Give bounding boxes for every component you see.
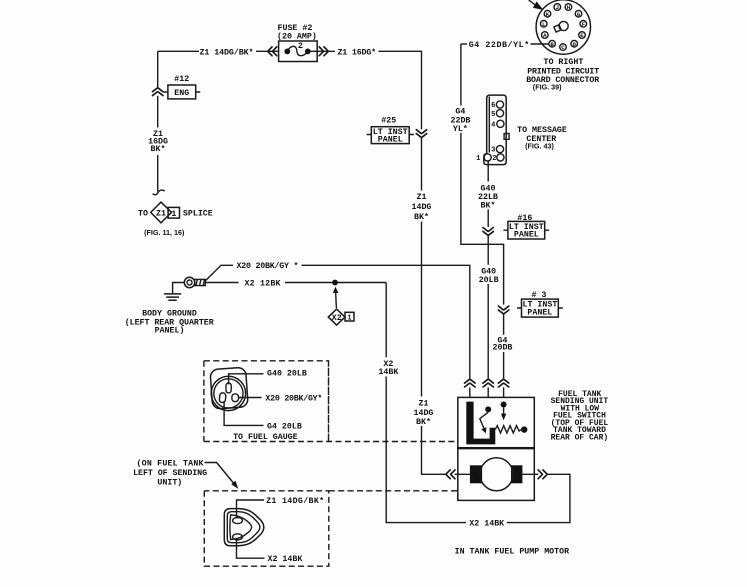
svg-text:1: 1 bbox=[347, 315, 351, 323]
message center pin 4 bbox=[497, 120, 504, 127]
PCB connector pin L bbox=[540, 21, 547, 28]
resistor end node bbox=[521, 426, 527, 432]
wire to label X2 14BK bbox=[237, 539, 265, 558]
svg-text:20LB: 20LB bbox=[479, 276, 499, 285]
svg-text:A: A bbox=[543, 32, 547, 39]
svg-text:(20 AMP): (20 AMP) bbox=[277, 31, 317, 41]
message center pin 2 bbox=[497, 154, 504, 161]
svg-text:PANEL: PANEL bbox=[378, 136, 403, 145]
wire Z1 lower segment with end hook bbox=[157, 155, 159, 192]
message center pin 1 bbox=[484, 154, 491, 161]
svg-text:14DG: 14DG bbox=[414, 409, 434, 418]
wire X20 from ground diagonal bbox=[205, 265, 233, 281]
PCB connector pin J bbox=[554, 4, 561, 11]
svg-text:5: 5 bbox=[491, 111, 495, 119]
svg-text:E: E bbox=[580, 32, 584, 39]
motor brush left bbox=[470, 465, 482, 483]
PCB connector pin G bbox=[575, 10, 582, 17]
wire to label X20 20BK/GY* bbox=[239, 397, 262, 399]
svg-text:G4 20LB: G4 20LB bbox=[267, 422, 302, 431]
wire Z1 to corner and down bbox=[379, 51, 422, 129]
svg-text:IN TANK FUEL PUMP MOTOR: IN TANK FUEL PUMP MOTOR bbox=[455, 548, 570, 557]
message center pin 6 bbox=[496, 101, 503, 108]
sender resistor bbox=[495, 426, 521, 433]
svg-text:H: H bbox=[567, 4, 571, 11]
sending unit ground bracket bbox=[466, 402, 495, 445]
svg-text:Z1: Z1 bbox=[417, 193, 427, 202]
connector #12 ENG box bbox=[168, 85, 196, 99]
svg-text:(FIG. 39): (FIG. 39) bbox=[533, 83, 562, 92]
svg-text:BODY GROUND: BODY GROUND bbox=[142, 309, 197, 318]
splice X2>1 symbol bbox=[328, 309, 345, 325]
dashed box pump connector area bbox=[204, 491, 328, 566]
svg-text:SPLICE: SPLICE bbox=[183, 209, 213, 218]
svg-text:L: L bbox=[542, 21, 546, 28]
fuel gauge pin G40 slot bbox=[226, 383, 231, 393]
connector #25 box bbox=[371, 127, 409, 144]
connector #25 stubs bbox=[367, 134, 414, 136]
svg-text:X2 14BK: X2 14BK bbox=[268, 555, 303, 564]
svg-text:B: B bbox=[550, 41, 554, 48]
svg-text:TO RIGHT: TO RIGHT bbox=[544, 58, 584, 67]
svg-text:X2 14BK: X2 14BK bbox=[469, 520, 504, 529]
svg-text:REAR OF CAR): REAR OF CAR) bbox=[551, 433, 609, 442]
svg-text:#12: #12 bbox=[174, 75, 189, 84]
wire G4 continues down, turns right, down at 503.6 bbox=[461, 133, 504, 305]
wire to label G4 20LB bbox=[224, 401, 263, 425]
fuel gauge pin G4 slot bbox=[219, 393, 226, 403]
svg-text:G40 20LB: G40 20LB bbox=[267, 369, 307, 378]
fuse F2 box bbox=[279, 41, 318, 62]
svg-text:TO: TO bbox=[138, 209, 148, 218]
svg-text:Z1 16DG*: Z1 16DG* bbox=[338, 47, 377, 57]
svg-text:14BK: 14BK bbox=[378, 368, 398, 377]
svg-text:ENG: ENG bbox=[174, 89, 189, 98]
junction node X2 bbox=[332, 280, 338, 286]
PCB connector pin F bbox=[580, 21, 587, 28]
PCB connector center key bbox=[559, 21, 568, 30]
PCB connector pin H bbox=[565, 4, 572, 11]
svg-text:1: 1 bbox=[476, 155, 480, 163]
svg-text:2: 2 bbox=[492, 155, 496, 163]
svg-text:BK*: BK* bbox=[481, 200, 496, 210]
svg-text:X2: X2 bbox=[332, 314, 342, 323]
svg-text:G4 22DB/YL*: G4 22DB/YL* bbox=[469, 40, 530, 50]
wire X2 14BK down bbox=[385, 283, 387, 358]
wire Z1 horizontal top-left to fuse bbox=[158, 50, 199, 52]
arrow pointing to PCB connector bbox=[529, 0, 535, 5]
wire G4 vertical bbox=[460, 44, 462, 106]
PCB connector pin A bbox=[542, 32, 549, 39]
fuel gauge connector shell bbox=[210, 367, 248, 409]
ground eyelet terminal bbox=[184, 277, 194, 287]
svg-text:6: 6 bbox=[491, 102, 495, 110]
break on Z1 wire at #25 bbox=[416, 130, 426, 138]
sender feed node bbox=[501, 402, 507, 408]
svg-text:(ON FUEL TANK: (ON FUEL TANK bbox=[137, 459, 204, 469]
connector #16 box bbox=[508, 221, 545, 239]
svg-text:F: F bbox=[582, 21, 586, 28]
wire Z1 into fuse bbox=[256, 50, 287, 52]
PCB connector pin B bbox=[549, 40, 556, 47]
wire Z1 long vertical to pump bbox=[421, 222, 423, 397]
wire G4 22DB/YL to pin B bbox=[461, 43, 467, 45]
sender wiper arrow bbox=[503, 408, 505, 415]
connector symbol female right of fuse bbox=[319, 47, 328, 56]
svg-text:(FIG. 43): (FIG. 43) bbox=[525, 141, 554, 150]
svg-text:Z1: Z1 bbox=[156, 209, 166, 218]
PCB connector pin K bbox=[544, 10, 551, 17]
svg-text:(FIG. 11, 16): (FIG. 11, 16) bbox=[144, 228, 185, 237]
fuel gauge pin X20 slot bbox=[232, 394, 239, 402]
wire G40 from message center pin 1 bbox=[487, 161, 489, 182]
svg-text:J: J bbox=[556, 4, 559, 11]
wire G40 to sending unit bbox=[487, 284, 489, 379]
ground lead bbox=[173, 283, 185, 294]
message center connector lock tab bbox=[504, 134, 509, 140]
low fuel switch arm bbox=[480, 412, 488, 428]
svg-text:Z1: Z1 bbox=[419, 400, 429, 409]
low fuel switch pivot node bbox=[485, 406, 491, 412]
wire X20 to corner and down to sending unit bbox=[302, 265, 470, 379]
wire to label G40 20LB bbox=[229, 374, 264, 385]
connector #3 box bbox=[522, 299, 559, 317]
wire Z1 vertical left run bbox=[157, 51, 159, 87]
svg-text:X20 20BK/GY*: X20 20BK/GY* bbox=[265, 394, 322, 404]
svg-text:Z1 14DG/BK*: Z1 14DG/BK* bbox=[266, 496, 324, 506]
pump 2-pin connector shell bbox=[224, 509, 263, 546]
PCB connector pin C bbox=[560, 44, 567, 51]
connector symbol male left of fuse bbox=[268, 47, 277, 56]
ground symbol bbox=[164, 294, 181, 300]
fuel gauge connector rings bbox=[211, 376, 245, 410]
svg-text:X20 20BK/GY *: X20 20BK/GY * bbox=[237, 261, 299, 271]
connector #3 stubs bbox=[517, 307, 563, 309]
splice X2 arrow to junction bbox=[335, 292, 338, 308]
pump connector pin Z1 slot bbox=[233, 517, 243, 523]
break symbol on Z1 bbox=[153, 88, 163, 96]
svg-text:2: 2 bbox=[298, 42, 303, 51]
svg-text:UNIT): UNIT) bbox=[157, 477, 182, 487]
svg-text:C: C bbox=[561, 44, 565, 51]
message center connector C1 body bbox=[484, 95, 506, 165]
break on G4 wire at #3 bbox=[498, 306, 508, 314]
svg-text:3: 3 bbox=[491, 147, 495, 155]
svg-text:#16: #16 bbox=[517, 214, 532, 223]
svg-text:PANEL): PANEL) bbox=[155, 326, 185, 336]
wire into motor left bbox=[455, 473, 471, 475]
svg-text:BK*: BK* bbox=[416, 417, 431, 427]
svg-text:X2 12BK: X2 12BK bbox=[245, 280, 281, 289]
dashed box fuel gauge sender area bbox=[204, 361, 329, 442]
svg-text:4: 4 bbox=[491, 121, 495, 129]
motor brush right bbox=[511, 465, 522, 483]
svg-text:PANEL: PANEL bbox=[514, 231, 539, 240]
svg-text:LEFT OF SENDING: LEFT OF SENDING bbox=[133, 469, 207, 478]
wire G40 continues bbox=[487, 236, 489, 265]
fuel tank sending unit box bbox=[458, 397, 535, 447]
motor armature circle bbox=[480, 458, 513, 491]
svg-text:# 3: # 3 bbox=[532, 291, 547, 300]
PCB connector pin E bbox=[579, 32, 586, 39]
svg-text:K: K bbox=[546, 11, 550, 18]
fuse F2 element bbox=[284, 49, 290, 55]
message center pin 3 bbox=[496, 146, 503, 153]
svg-text:PANEL: PANEL bbox=[527, 308, 552, 317]
svg-text:D: D bbox=[573, 41, 577, 48]
wire to label Z1 14DG/BK* bbox=[237, 500, 265, 519]
svg-text:Z1 14DG/BK*: Z1 14DG/BK* bbox=[200, 47, 254, 57]
pump connector pin X2 slot bbox=[233, 534, 243, 540]
svg-text:TO FUEL GAUGE: TO FUEL GAUGE bbox=[233, 433, 298, 442]
wire G4 to sending unit bbox=[503, 352, 505, 379]
svg-text:1: 1 bbox=[171, 210, 176, 219]
svg-text:BK*: BK* bbox=[151, 144, 166, 154]
message center pin 5 bbox=[496, 110, 503, 117]
fuel pump motor box bbox=[458, 449, 535, 501]
wire Z1 below #25 bbox=[421, 138, 423, 191]
svg-text:BK*: BK* bbox=[414, 212, 429, 222]
svg-text:YL*: YL* bbox=[453, 124, 468, 134]
connector #16 stubs bbox=[503, 229, 549, 231]
svg-text:TO MESSAGE: TO MESSAGE bbox=[517, 126, 567, 135]
wire X2 12BK from ground bbox=[205, 282, 238, 284]
wire out of motor right bbox=[522, 473, 539, 475]
svg-text:#25: #25 bbox=[381, 117, 396, 126]
message center connector inner wall bbox=[488, 97, 490, 153]
PCB board connector circle bbox=[536, 0, 590, 54]
svg-text:14DG: 14DG bbox=[412, 203, 432, 212]
leader arrow to lower dashed box bbox=[205, 463, 234, 484]
connector #12 ENG stub bbox=[163, 91, 200, 93]
svg-text:20DB: 20DB bbox=[493, 344, 513, 353]
wire Z1 16DG right of fuse bbox=[308, 50, 335, 52]
wire G4 below #3 bbox=[503, 314, 505, 335]
PCB connector pin D bbox=[571, 40, 578, 47]
wire G40 to break bbox=[487, 209, 489, 227]
svg-text:G: G bbox=[577, 11, 581, 18]
